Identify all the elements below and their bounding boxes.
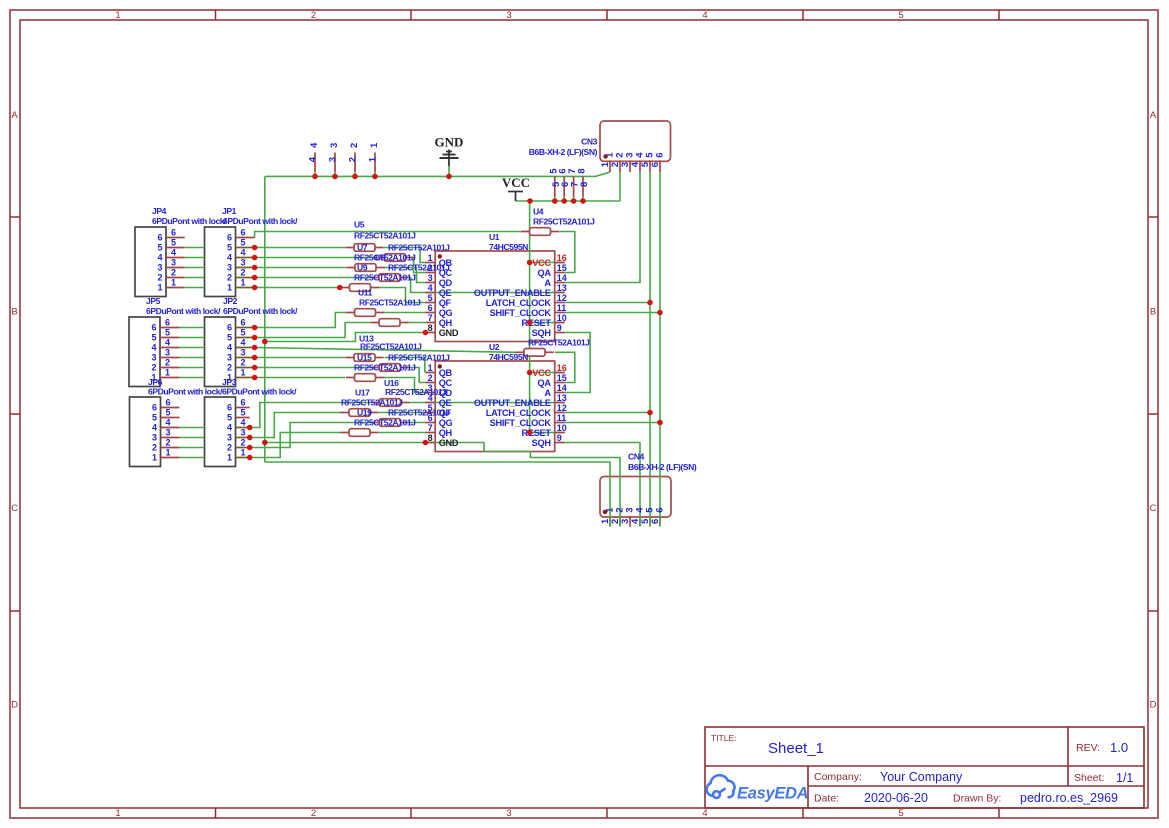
svg-text:1: 1	[241, 448, 246, 458]
svg-text:1: 1	[152, 453, 157, 463]
svg-text:RF25CT52A101J: RF25CT52A101J	[388, 353, 450, 363]
svg-text:VCC: VCC	[532, 258, 551, 268]
wire U13 to U2 QC	[409, 368, 425, 383]
wire CN3 pin6 to CN4 pin6	[659, 172, 661, 527]
svg-text:4: 4	[157, 253, 162, 263]
connector JP2 pins	[236, 327, 255, 329]
svg-text:2: 2	[349, 143, 360, 148]
svg-text:6: 6	[650, 162, 661, 167]
IC U2 pin1 marker dot	[438, 364, 442, 368]
svg-text:C: C	[11, 503, 18, 514]
svg-text:RF25CT52A101J: RF25CT52A101J	[533, 217, 595, 227]
svg-text:3: 3	[171, 258, 176, 268]
svg-text:4: 4	[227, 343, 232, 353]
wire U2 pin12 LATCH_CLOCK	[565, 412, 650, 414]
connector CN4 body	[600, 477, 671, 518]
svg-text:3: 3	[227, 353, 232, 363]
svg-text:6: 6	[227, 323, 232, 333]
resistor U10	[370, 277, 379, 279]
svg-text:U17: U17	[355, 388, 370, 398]
svg-text:4: 4	[241, 418, 246, 428]
svg-text:A: A	[1150, 110, 1157, 121]
svg-text:6: 6	[152, 403, 157, 413]
svg-text:1: 1	[115, 10, 120, 21]
svg-text:9: 9	[557, 323, 562, 333]
svg-text:U1: U1	[489, 232, 500, 242]
wire U2 pin10 RESET	[530, 432, 565, 434]
resistor U18	[371, 402, 380, 404]
IC U1 pin1 marker dot	[438, 254, 442, 258]
svg-text:3: 3	[227, 433, 232, 443]
wire JP1 pin3 to U9	[255, 267, 346, 269]
wire U14 to U1 QH	[409, 322, 426, 324]
svg-text:U2: U2	[489, 342, 500, 352]
svg-text:1: 1	[166, 448, 171, 458]
svg-text:RF25CT52A101J: RF25CT52A101J	[385, 387, 447, 397]
EasyEDA logo	[707, 775, 735, 798]
svg-text:U19: U19	[357, 408, 372, 418]
svg-text:Date:: Date:	[814, 793, 839, 805]
wire U18 to U2 QE and OE	[409, 402, 565, 404]
connector JP4 body	[135, 227, 166, 297]
svg-text:5: 5	[898, 10, 903, 21]
svg-text:RF25CT52A101J: RF25CT52A101J	[354, 363, 416, 373]
wire U15 to U2 QB	[385, 358, 425, 373]
svg-text:4: 4	[166, 418, 171, 428]
svg-text:2: 2	[311, 808, 316, 819]
svg-text:13: 13	[557, 393, 567, 403]
resistor U13	[371, 367, 380, 369]
svg-text:RF25CT52A101J: RF25CT52A101J	[341, 398, 403, 408]
svg-text:6PDuPont with lock/: 6PDuPont with lock/	[223, 306, 298, 316]
svg-text:B: B	[11, 307, 17, 318]
svg-text:B6B-XH-2 (LF)(SN): B6B-XH-2 (LF)(SN)	[529, 147, 598, 157]
svg-text:Company:: Company:	[814, 771, 862, 783]
junction dot U11 input	[337, 285, 343, 291]
svg-text:3: 3	[165, 348, 170, 358]
svg-text:VCC: VCC	[502, 175, 530, 190]
svg-text:4: 4	[171, 248, 176, 258]
svg-text:8: 8	[577, 169, 588, 174]
svg-text:6PDuPont with lock/: 6PDuPont with lock/	[152, 216, 227, 226]
svg-text:2: 2	[428, 373, 433, 383]
connector JP5 pins	[160, 327, 179, 329]
wire U1 pin9 SQH cascade to U2 pin14	[565, 333, 590, 393]
svg-text:11: 11	[557, 303, 567, 313]
svg-text:6: 6	[241, 228, 246, 238]
junction dots VCC rail	[527, 260, 533, 266]
connector CN4 pin stubs	[609, 516, 611, 527]
connector JP4 pins	[166, 237, 185, 239]
wire JP2 pin1 to U16	[255, 377, 345, 379]
svg-text:5: 5	[165, 328, 170, 338]
svg-text:SHIFT_CLOCK: SHIFT_CLOCK	[490, 308, 552, 318]
wire VCC to CN3 pin2	[619, 172, 621, 201]
connector JP3 body	[205, 397, 236, 467]
svg-text:2: 2	[171, 268, 176, 278]
svg-text:5: 5	[227, 333, 232, 343]
svg-text:QE: QE	[439, 398, 452, 408]
svg-text:16: 16	[557, 363, 567, 373]
svg-text:12: 12	[557, 293, 567, 303]
resistor U12	[346, 312, 355, 314]
wire JP3 pin1 to U21	[250, 433, 341, 458]
svg-text:6: 6	[655, 508, 666, 513]
svg-text:5: 5	[171, 238, 176, 248]
svg-text:2: 2	[241, 358, 246, 368]
svg-text:74HC595N: 74HC595N	[489, 242, 528, 252]
wire U2 pin11 SHIFT_CLOCK	[565, 422, 660, 424]
junction dots U1 U2 GND pins	[423, 330, 429, 336]
svg-text:RF25CT52A101J: RF25CT52A101J	[528, 337, 590, 347]
svg-text:CN3: CN3	[581, 137, 598, 147]
svg-text:5: 5	[227, 413, 232, 423]
wire U1 pin12 LATCH_CLOCK	[565, 302, 650, 304]
svg-text:3: 3	[241, 258, 246, 268]
wire U7 to U1 QB	[384, 248, 425, 263]
svg-text:VCC: VCC	[532, 368, 551, 378]
resistor U9	[346, 267, 355, 269]
svg-text:14: 14	[557, 273, 567, 283]
svg-text:12: 12	[557, 403, 567, 413]
connector JP2 body	[205, 317, 236, 387]
svg-text:9: 9	[557, 433, 562, 443]
svg-text:U5: U5	[354, 220, 365, 230]
connector CN4 pin1 marker dot	[603, 510, 607, 514]
wire top GND net horizontal	[265, 172, 610, 176]
svg-text:1: 1	[165, 368, 170, 378]
svg-text:3: 3	[327, 157, 338, 162]
connector JP1 pins	[236, 237, 255, 239]
connector JP3 pins	[236, 407, 250, 409]
wire U2 pin9 SQH to CN4 pin4	[565, 443, 640, 527]
svg-text:4: 4	[702, 808, 707, 819]
svg-text:U4: U4	[533, 207, 544, 217]
svg-text:4: 4	[428, 283, 433, 293]
svg-text:3: 3	[151, 353, 156, 363]
resistor U14	[370, 322, 379, 324]
svg-text:B6B-XH-2 (LF)(SN): B6B-XH-2 (LF)(SN)	[628, 462, 697, 472]
svg-text:6PDuPont with lock/: 6PDuPont with lock/	[222, 387, 297, 397]
svg-text:1: 1	[428, 253, 433, 263]
svg-text:8: 8	[579, 182, 590, 187]
svg-text:6: 6	[227, 233, 232, 243]
svg-text:TITLE:: TITLE:	[711, 733, 737, 743]
svg-text:11: 11	[557, 413, 567, 423]
svg-text:13: 13	[557, 283, 567, 293]
svg-text:14: 14	[557, 383, 567, 393]
wire U9 to U1 QD	[384, 268, 425, 283]
junction dots GND rail	[262, 339, 268, 345]
svg-text:1: 1	[241, 368, 246, 378]
wire JP2 pin5 to U14 to U1 QH	[255, 323, 370, 338]
resistor U6	[376, 257, 385, 259]
wire U1 pin16 VCC	[530, 262, 565, 264]
wire GND rail vertical	[264, 176, 266, 462]
svg-text:QH: QH	[439, 428, 453, 438]
svg-text:6: 6	[151, 323, 156, 333]
svg-text:JP6: JP6	[148, 377, 163, 387]
svg-text:15: 15	[557, 263, 567, 273]
svg-text:6: 6	[166, 398, 171, 408]
wire JP4 row stubs to JP1	[185, 247, 205, 249]
svg-text:3: 3	[428, 273, 433, 283]
svg-text:2: 2	[227, 443, 232, 453]
svg-text:RF25CT52A101J: RF25CT52A101J	[359, 298, 421, 308]
wire U4 to U1 pin15 QA	[560, 232, 575, 273]
svg-text:6PDuPont with lock/: 6PDuPont with lock/	[223, 216, 298, 226]
svg-text:RF25CT52A101J: RF25CT52A101J	[388, 263, 450, 273]
svg-text:D: D	[1150, 700, 1157, 711]
wire JP1 pin6 up to U4	[255, 232, 521, 238]
svg-text:U7: U7	[357, 243, 368, 253]
svg-text:A: A	[544, 278, 551, 288]
svg-text:D: D	[11, 700, 18, 711]
svg-text:3: 3	[241, 348, 246, 358]
svg-text:1: 1	[227, 453, 232, 463]
svg-text:2: 2	[227, 363, 232, 373]
svg-text:6PDuPont with lock/: 6PDuPont with lock/	[146, 306, 221, 316]
wire JP1 pin1 to U11	[255, 287, 342, 289]
IC U1 pins	[425, 262, 435, 264]
svg-text:JP1: JP1	[222, 206, 237, 216]
svg-text:4: 4	[227, 423, 232, 433]
svg-text:OUTPUT_ENABLE: OUTPUT_ENABLE	[474, 398, 551, 408]
connector CN3 pin stubs	[609, 160, 611, 172]
svg-text:6: 6	[227, 403, 232, 413]
net stubs 5 6 7 8 on VCC net	[554, 176, 556, 196]
connector CN3 pin1 marker dot	[603, 154, 607, 158]
svg-text:3: 3	[157, 263, 162, 273]
svg-text:LATCH_CLOCK: LATCH_CLOCK	[486, 408, 552, 418]
svg-text:6: 6	[157, 233, 162, 243]
wire JP3 pin2 to U20	[250, 423, 372, 448]
svg-text:RF25CT52A101J: RF25CT52A101J	[388, 243, 450, 253]
wire VCC rail vertical	[529, 201, 531, 433]
svg-text:2: 2	[151, 363, 156, 373]
svg-text:A: A	[544, 388, 551, 398]
wire U1 pin11 SHIFT_CLOCK	[565, 312, 660, 314]
svg-text:6: 6	[241, 318, 246, 328]
svg-text:2: 2	[157, 273, 162, 283]
svg-text:Sheet:: Sheet:	[1074, 772, 1104, 784]
wire U1 pin14 A to CN3 pin4	[565, 172, 640, 283]
svg-text:3: 3	[241, 428, 246, 438]
junction dots clock columns	[647, 300, 653, 306]
svg-text:4: 4	[241, 248, 246, 258]
svg-text:EasyEDA: EasyEDA	[737, 785, 808, 803]
svg-text:5: 5	[227, 243, 232, 253]
svg-text:5: 5	[241, 328, 246, 338]
IC U2 74HC595N body	[435, 361, 555, 452]
svg-text:5: 5	[898, 808, 903, 819]
wire VCC hang stub caps	[554, 197, 556, 202]
svg-text:7: 7	[428, 313, 433, 323]
wire JP2 pin6 to U12 to U1 QG	[255, 313, 346, 328]
wire JP2 pin2 to U13	[255, 367, 371, 369]
svg-text:A: A	[11, 110, 18, 121]
wire JP1 pin5 to U7	[255, 247, 345, 249]
wire JP1 pin4 to U6	[255, 257, 376, 259]
row ticks left	[10, 216, 20, 218]
connector JP5 body	[129, 317, 160, 387]
svg-text:2: 2	[152, 443, 157, 453]
junction dots VCC net	[527, 198, 533, 204]
resistor U11	[341, 287, 350, 289]
wire U2 GND net horizontal	[265, 442, 484, 444]
svg-text:4: 4	[152, 423, 157, 433]
resistor U7	[345, 247, 354, 249]
svg-text:4: 4	[241, 338, 246, 348]
svg-text:GND: GND	[439, 328, 459, 338]
svg-text:2020-06-20: 2020-06-20	[864, 791, 928, 805]
svg-text:CN4: CN4	[628, 452, 645, 462]
svg-text:SQH: SQH	[532, 438, 552, 448]
svg-text:GND: GND	[439, 438, 459, 448]
wire U2 pin16 VCC	[530, 372, 565, 374]
wire U1 GND to GND rail	[265, 333, 426, 342]
wire U10 to U1 QE and OE	[409, 278, 565, 293]
svg-text:6: 6	[655, 153, 666, 158]
wire JP1 pin2 to U10	[255, 277, 370, 279]
svg-text:3: 3	[506, 10, 511, 21]
wire U12 to U1 QG	[384, 312, 425, 314]
resistor U21	[340, 432, 349, 434]
svg-text:RF25CT52A101J: RF25CT52A101J	[388, 408, 450, 418]
wire U6 to U1 QC	[411, 258, 426, 273]
svg-text:pedro.ro.es_2969: pedro.ro.es_2969	[1020, 791, 1118, 805]
wire JP6 row stubs to JP3	[179, 427, 204, 429]
svg-text:10: 10	[557, 423, 567, 433]
svg-text:QG: QG	[439, 418, 453, 428]
svg-text:5: 5	[166, 408, 171, 418]
connector JP1 body	[205, 227, 236, 297]
svg-text:LATCH_CLOCK: LATCH_CLOCK	[486, 298, 552, 308]
svg-text:QD: QD	[439, 278, 453, 288]
svg-text:4: 4	[165, 338, 170, 348]
connector JP6 pins	[161, 407, 180, 409]
svg-text:3: 3	[227, 263, 232, 273]
svg-text:6PDuPont with lock/: 6PDuPont with lock/	[148, 387, 223, 397]
svg-text:10: 10	[557, 313, 567, 323]
svg-text:Sheet_1: Sheet_1	[768, 740, 824, 757]
svg-text:6: 6	[165, 318, 170, 328]
svg-text:2: 2	[166, 438, 171, 448]
net stubs 4 3 2 1 on GND net	[314, 172, 316, 176]
svg-text:7: 7	[428, 423, 433, 433]
svg-text:2: 2	[241, 438, 246, 448]
svg-text:4: 4	[702, 10, 707, 21]
svg-text:GND: GND	[435, 135, 464, 150]
svg-text:1: 1	[241, 278, 246, 288]
svg-text:C: C	[1150, 503, 1157, 514]
wire GND rail to CN4 pin1	[265, 462, 610, 527]
svg-text:5: 5	[152, 413, 157, 423]
svg-text:QG: QG	[439, 308, 453, 318]
svg-text:RF25CT52A101J: RF25CT52A101J	[354, 418, 416, 428]
svg-text:2: 2	[311, 10, 316, 21]
wire CN3 pin5 to CN4 pin5	[649, 172, 651, 527]
svg-text:JP5: JP5	[146, 296, 161, 306]
svg-text:5: 5	[241, 408, 246, 418]
wire U3 to U2 pin15 QA	[555, 352, 575, 382]
wire U21 to U2 QH	[379, 432, 425, 434]
svg-text:QA: QA	[538, 268, 552, 278]
svg-text:Drawn By:: Drawn By:	[953, 793, 1001, 805]
title block frame	[705, 727, 1144, 808]
svg-text:3: 3	[166, 428, 171, 438]
svg-text:U9: U9	[357, 263, 368, 273]
svg-text:1.0: 1.0	[1110, 740, 1128, 755]
svg-text:REV:: REV:	[1076, 742, 1100, 754]
svg-text:RESET: RESET	[522, 428, 552, 438]
wire U19 to U2 QF	[379, 412, 425, 414]
svg-text:3: 3	[152, 433, 157, 443]
junction dots top GND net	[312, 174, 318, 180]
svg-text:QA: QA	[538, 378, 552, 388]
svg-text:5: 5	[428, 293, 433, 303]
svg-text:RF25CT52A101J: RF25CT52A101J	[354, 273, 416, 283]
svg-text:QB: QB	[439, 368, 453, 378]
svg-text:2: 2	[165, 358, 170, 368]
column ticks bottom	[215, 808, 217, 818]
svg-text:U6: U6	[375, 253, 386, 263]
wire JP2 pin3 to U15	[255, 357, 345, 359]
svg-text:Your Company: Your Company	[880, 770, 963, 784]
wire JP5 row stubs to JP2	[179, 327, 204, 329]
svg-text:74HC595N: 74HC595N	[489, 352, 528, 362]
svg-text:SHIFT_CLOCK: SHIFT_CLOCK	[490, 418, 552, 428]
svg-text:2: 2	[347, 157, 358, 162]
svg-text:4: 4	[151, 343, 156, 353]
svg-text:1: 1	[157, 283, 162, 293]
svg-text:OUTPUT_ENABLE: OUTPUT_ENABLE	[474, 288, 551, 298]
svg-text:3: 3	[329, 143, 340, 148]
column ticks top	[215, 10, 217, 20]
wire JP3 pin3 to U19	[250, 413, 341, 438]
wire U20 to U2 QG	[409, 422, 425, 424]
svg-text:8: 8	[428, 433, 433, 443]
svg-text:U15: U15	[357, 353, 372, 363]
wire U16 to U2 QD	[384, 378, 425, 393]
svg-text:6: 6	[650, 519, 661, 524]
svg-text:5: 5	[241, 238, 246, 248]
svg-text:U11: U11	[358, 288, 373, 298]
resistor U19	[340, 412, 349, 414]
svg-text:1: 1	[171, 278, 176, 288]
svg-text:B: B	[1150, 307, 1156, 318]
svg-text:QF: QF	[439, 298, 452, 308]
row ticks right	[1148, 216, 1158, 218]
svg-text:1: 1	[227, 283, 232, 293]
IC U2 pins	[425, 372, 435, 374]
svg-text:RF25CT52A101J: RF25CT52A101J	[354, 231, 416, 241]
svg-text:3: 3	[506, 808, 511, 819]
wire VCC net horizontal	[516, 200, 621, 202]
svg-text:RESET: RESET	[522, 318, 552, 328]
svg-text:4: 4	[227, 253, 232, 263]
resistor U20	[371, 422, 380, 424]
svg-text:QH: QH	[439, 318, 453, 328]
svg-text:1: 1	[428, 363, 433, 373]
wire JP3 pin4 to U18	[250, 403, 371, 428]
wire GND to CN4 pin2	[484, 443, 620, 527]
svg-text:1/1: 1/1	[1116, 771, 1133, 785]
svg-text:JP2: JP2	[223, 296, 238, 306]
svg-text:QE: QE	[439, 288, 452, 298]
svg-text:5: 5	[151, 333, 156, 343]
svg-text:JP4: JP4	[152, 206, 167, 216]
